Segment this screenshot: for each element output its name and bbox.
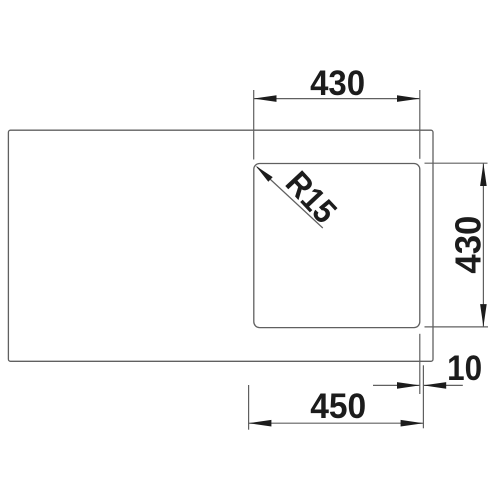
bottom dimension 450: left arrowhead bbox=[249, 420, 272, 427]
10 dimension: right-pointing arrowhead bbox=[397, 382, 420, 389]
right dimension 430: bottom extension line bbox=[425, 326, 489, 328]
10 dimension: left-pointing arrowhead bbox=[423, 382, 446, 389]
right dimension 430: down arrowhead bbox=[480, 304, 487, 327]
R15 leader arrowhead bbox=[256, 166, 273, 182]
svg-text:430: 430 bbox=[310, 64, 365, 103]
bottom dimension 450: right arrowhead bbox=[401, 420, 424, 427]
10 dimension: right tail line bbox=[423, 384, 462, 386]
sink outer rim rectangle bbox=[8, 130, 433, 361]
svg-text:430: 430 bbox=[448, 216, 489, 274]
top dimension 430: dimension line bbox=[254, 98, 420, 100]
right dimension 430: up arrowhead bbox=[480, 163, 487, 186]
bottom dimension 450: dimension line bbox=[249, 422, 424, 424]
top dimension 430: right extension line bbox=[419, 90, 421, 159]
svg-text:10: 10 bbox=[447, 349, 482, 388]
10 dimension: bowl-edge extension line bbox=[419, 334, 421, 394]
top dimension 430: left arrowhead bbox=[254, 95, 277, 102]
right dimension 430: dimension line bbox=[482, 163, 484, 327]
10 dimension: left tail line bbox=[373, 384, 420, 386]
top dimension 430: left extension line bbox=[253, 90, 255, 160]
R15 corner radius leader line bbox=[257, 167, 323, 228]
10 dimension: cutout-edge extension line bbox=[422, 365, 424, 428]
top dimension 430: right arrowhead bbox=[397, 95, 420, 102]
bowl (rounded square R15) bbox=[254, 164, 420, 328]
right dimension 430: top extension line bbox=[425, 162, 488, 164]
bottom dimension 450: left extension line bbox=[248, 385, 250, 430]
svg-text:450: 450 bbox=[310, 387, 366, 426]
